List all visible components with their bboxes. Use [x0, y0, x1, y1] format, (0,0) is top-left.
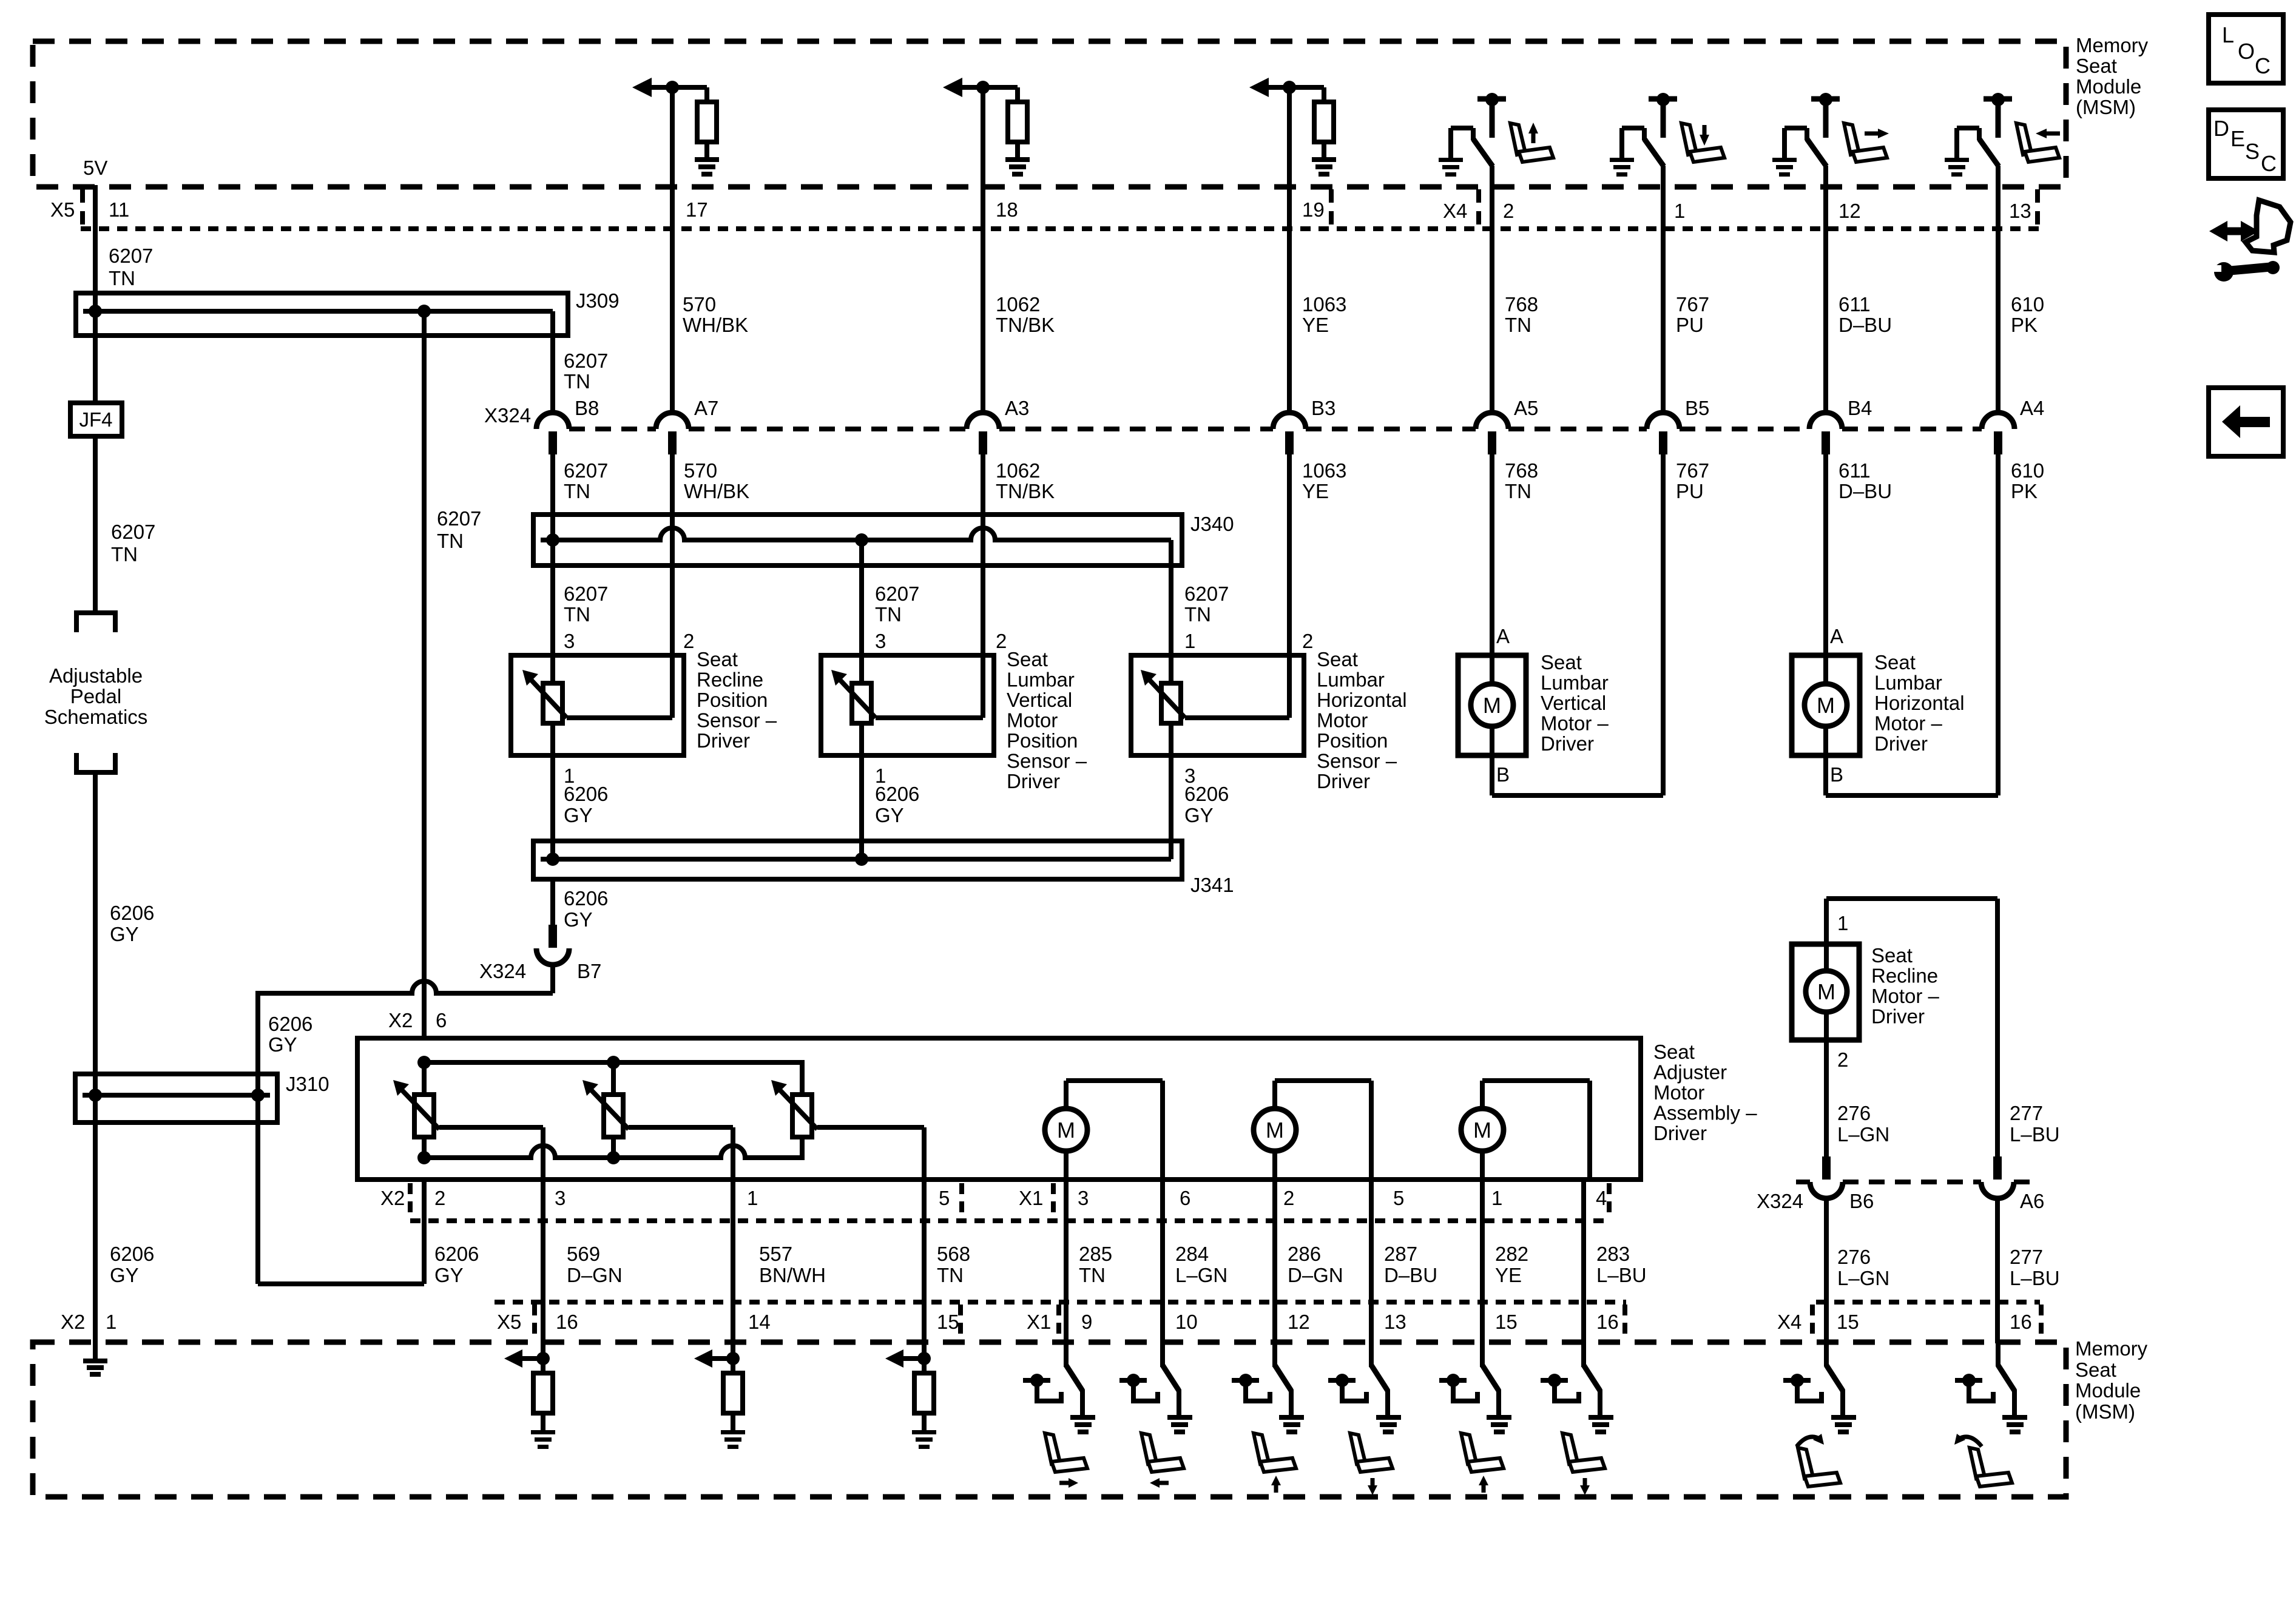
ground for R17	[695, 157, 719, 177]
svg-text:282: 282	[1495, 1243, 1528, 1265]
wire 277 L-BU to X324 A6	[1995, 899, 2000, 1159]
seat icon for switch S1	[1510, 123, 1553, 162]
J341 bus bar	[541, 857, 1171, 862]
svg-text:6206: 6206	[1184, 783, 1229, 805]
svg-text:2: 2	[996, 630, 1007, 652]
seat recline motor box	[1792, 944, 1859, 1040]
label 6207 TN below B8	[564, 459, 608, 502]
wire 1063 YE pin19 to X324 B3	[1287, 87, 1292, 413]
LOC icon box	[2209, 15, 2283, 83]
junction dot bottom bus pot1	[417, 1151, 431, 1164]
svg-text:611: 611	[1838, 293, 1871, 316]
junction dot J341 at B7 wire	[546, 852, 559, 866]
wire 6206 GY J310 down to loop	[255, 1095, 260, 1284]
pin row dotted line X4 bottom	[1816, 1300, 2040, 1305]
label Seat Adjuster Motor Assembly Driver	[1653, 1041, 1757, 1144]
svg-text:TN: TN	[1079, 1264, 1106, 1286]
label 6207 TN upper	[109, 245, 153, 289]
label 6207 TN below JF4	[111, 521, 155, 565]
svg-text:569: 569	[567, 1243, 600, 1265]
label 6206 GY above J310	[110, 902, 154, 945]
switch in MSM at X1-10 seat rearward	[1163, 1342, 1179, 1416]
pin row dotted line X5/X1 bottom	[495, 1300, 1626, 1305]
label 287 D-BU	[1384, 1243, 1437, 1286]
label 768 TN above X324	[1505, 293, 1538, 336]
svg-text:TN/BK: TN/BK	[996, 314, 1055, 336]
wire 6206 GY sensor1 pin1 to J341	[550, 723, 555, 859]
svg-text:J340: J340	[1190, 513, 1234, 535]
seat icon for switch S3	[1844, 123, 1889, 162]
svg-text:Adjustable: Adjustable	[49, 664, 143, 687]
junction dot X5-16	[536, 1352, 550, 1365]
X324 dashed line at B6/A6	[1796, 1180, 2030, 1184]
svg-text:GY: GY	[564, 804, 593, 826]
junction dot J310 right	[251, 1089, 265, 1102]
switch in MSM at X1-9 seat forward	[1066, 1342, 1082, 1416]
J309 bus corner down to B8	[550, 311, 555, 336]
X324 terminal B6	[1810, 1156, 1843, 1198]
svg-text:6207: 6207	[564, 349, 608, 372]
wire 610 PK X4-13 to X324 A4	[1996, 166, 2001, 413]
ground at X1-16 rear down	[1589, 1415, 1613, 1434]
svg-text:Driver: Driver	[1541, 732, 1594, 755]
svg-text:B5: B5	[1685, 397, 1709, 419]
svg-text:B8: B8	[575, 397, 599, 419]
junction dot bottom bus pot2	[607, 1151, 620, 1164]
wire 6207 TN B8 to J340	[550, 454, 555, 540]
diagnostic arrow wrench icon	[2209, 200, 2291, 282]
svg-text:16: 16	[556, 1311, 578, 1333]
label 276 L-GN below	[1837, 1246, 1889, 1289]
wire loop seat lumbar horizontal motor driver	[1826, 755, 1998, 795]
wire 1062 TN/BK pin18 to X324 A3	[981, 87, 985, 413]
wire 276 L-GN B6 to X4-15	[1824, 1198, 1829, 1343]
assembly top bus	[424, 1062, 802, 1096]
label 6206 GY sensor1	[564, 783, 608, 826]
svg-text:D–BU: D–BU	[1384, 1264, 1437, 1286]
junction dot wire R18	[976, 81, 990, 94]
seat recline position sensor driver box	[511, 655, 684, 755]
seat icon at X1-12 front up	[1254, 1433, 1296, 1493]
wire 570 WH/BK pin17 to X324 A7	[670, 87, 675, 413]
wire 570 WH/BK A7 to sensor	[670, 454, 675, 718]
svg-text:TN: TN	[564, 603, 590, 626]
wire 6206 GY loop bottom	[258, 1281, 424, 1286]
svg-text:5V: 5V	[83, 157, 107, 179]
svg-text:5: 5	[939, 1187, 950, 1209]
wire 6207 TN J309 to X324 B8	[550, 333, 555, 413]
X324 terminal bump A7	[656, 413, 689, 454]
svg-text:Sensor –: Sensor –	[1007, 750, 1087, 772]
svg-text:Driver: Driver	[1317, 770, 1370, 792]
arrow into MSM at X5-15	[885, 1349, 924, 1368]
svg-text:Motor –: Motor –	[1541, 712, 1609, 735]
label 6207 TN sensor3	[1184, 582, 1229, 626]
connector tick X4 left	[1476, 189, 1481, 226]
seat recline position sensor driver label text	[697, 648, 777, 752]
tick X1 end bottom	[1622, 1305, 1627, 1338]
svg-text:Driver: Driver	[1007, 770, 1060, 792]
wire B7 down to 6206 GY run	[550, 964, 555, 993]
svg-text:767: 767	[1676, 459, 1709, 482]
seat adjuster motor assembly box	[357, 1038, 1641, 1180]
ground for switch S4	[1945, 158, 1969, 177]
svg-text:M: M	[1483, 693, 1501, 718]
svg-text:287: 287	[1384, 1243, 1417, 1265]
label 6206 GY sensor2	[875, 783, 919, 826]
J340 bus corner down to sensor3	[1169, 540, 1173, 565]
fixed contact hook at X1-16 rear down	[1541, 1374, 1579, 1401]
seat icon at X4-16 recline rearward	[1954, 1434, 2012, 1487]
splice J340 box	[533, 515, 1182, 565]
off-page connector bottom bracket	[76, 753, 115, 772]
seat lumbar vertical motor position sensor driver label text	[1007, 648, 1087, 792]
X324 terminal bump A3	[967, 413, 999, 454]
seat icon at X1-13 front down	[1350, 1433, 1393, 1495]
svg-text:M: M	[1817, 979, 1835, 1004]
svg-text:TN: TN	[564, 480, 590, 502]
X324 terminal B7 cup	[536, 948, 569, 965]
svg-text:TN: TN	[437, 530, 464, 552]
svg-text:1: 1	[1491, 1187, 1502, 1209]
potentiometer P2 vertical position in assembly	[582, 1062, 629, 1158]
svg-text:Position: Position	[697, 689, 768, 711]
switch in MSM at X1-12 front up	[1275, 1342, 1291, 1416]
svg-text:Sensor –: Sensor –	[1317, 750, 1397, 772]
wire 277 L-BU A6 to X4-16	[1995, 1198, 2000, 1343]
seat lumbar horizontal motor position sensor driver box	[1131, 655, 1304, 755]
junction dot J310 left	[89, 1089, 102, 1102]
connector tick X4 right	[2035, 189, 2040, 226]
svg-text:BN/WH: BN/WH	[759, 1264, 826, 1286]
svg-text:3: 3	[1078, 1187, 1089, 1209]
arrow into MSM on wire R18	[943, 78, 1018, 97]
svg-text:Motor: Motor	[1653, 1081, 1704, 1104]
X324 terminal bump B4	[1809, 413, 1842, 454]
off-page connector top bracket	[76, 613, 115, 632]
svg-text:B6: B6	[1849, 1190, 1874, 1212]
junction dot J341 at sensor2 wire	[855, 852, 868, 866]
svg-text:6206: 6206	[875, 783, 919, 805]
svg-text:A7: A7	[694, 397, 718, 419]
seat lumbar vertical motor position sensor driver wiper wire	[876, 715, 983, 720]
wire 285 TN to MSM	[1064, 1180, 1069, 1367]
svg-text:12: 12	[1288, 1311, 1310, 1333]
svg-text:611: 611	[1838, 459, 1871, 482]
label 282 YE	[1495, 1243, 1528, 1286]
seat icon at X1-16 rear down	[1562, 1433, 1605, 1495]
seat recline position sensor driver wiper wire	[567, 715, 672, 720]
svg-text:TN: TN	[564, 370, 590, 393]
svg-text:A: A	[1496, 625, 1510, 647]
ground at X4-16 recline rearward	[2002, 1415, 2027, 1434]
svg-text:L–GN: L–GN	[1175, 1264, 1227, 1286]
label 610 PK below X324	[2011, 459, 2044, 502]
seat recline motor	[1806, 944, 1847, 1040]
svg-text:285: 285	[1079, 1243, 1112, 1265]
svg-text:1063: 1063	[1302, 459, 1346, 482]
svg-text:3: 3	[555, 1187, 566, 1209]
ground for switch S1	[1439, 158, 1463, 177]
switch in MSM at X1-15 rear up	[1482, 1342, 1499, 1416]
label 1063 YE below X324	[1302, 459, 1346, 502]
svg-text:YE: YE	[1302, 480, 1329, 502]
svg-text:6207: 6207	[111, 521, 155, 543]
svg-text:M: M	[1473, 1118, 1491, 1143]
svg-text:GY: GY	[268, 1033, 297, 1056]
svg-text:YE: YE	[1302, 314, 1329, 336]
label 6206 GY X2-2	[434, 1243, 479, 1286]
label 285 TN	[1079, 1243, 1112, 1286]
fixed contact hook at X4-15 recline forward	[1783, 1374, 1822, 1401]
wire 6207 TN J309 to X2-6 long vertical	[422, 311, 427, 1038]
seat lumbar horizontal motor position sensor driver wiper wire	[1185, 715, 1289, 720]
label 557 BN/WH	[759, 1243, 826, 1286]
svg-text:Seat: Seat	[1317, 648, 1358, 670]
svg-text:6207: 6207	[1184, 582, 1229, 605]
svg-text:6: 6	[436, 1009, 447, 1031]
svg-text:O: O	[2238, 39, 2255, 64]
seat lumbar horizontal motor position sensor driver label text	[1317, 648, 1407, 792]
wire 767 PU B5 to lumbar vertical motor loop	[1661, 454, 1666, 795]
svg-text:17: 17	[686, 198, 708, 221]
wire 611 D-BU B4 to lumbar horizontal motor	[1823, 454, 1828, 655]
svg-text:Recline: Recline	[1871, 965, 1938, 987]
arrow into MSM on wire R17	[632, 78, 707, 97]
svg-text:X2: X2	[61, 1311, 85, 1333]
wire 767 PU X4-1 to X324 B5	[1661, 166, 1666, 413]
svg-text:X324: X324	[479, 960, 526, 982]
label text seat lumbar horizontal motor driver	[1874, 651, 1965, 755]
label 286 D-GN	[1288, 1243, 1343, 1286]
svg-text:B: B	[1830, 763, 1843, 786]
svg-text:B4: B4	[1848, 397, 1872, 419]
label 767 PU above X324	[1676, 293, 1709, 336]
svg-text:Lumbar: Lumbar	[1317, 669, 1385, 691]
svg-text:J341: J341	[1190, 874, 1234, 896]
svg-text:GY: GY	[1184, 804, 1214, 826]
resistor at X5-16	[533, 1359, 553, 1431]
X324 terminal bump A5	[1476, 413, 1508, 454]
seat lumbar vertical motor position sensor driver box	[821, 655, 994, 755]
svg-text:Module: Module	[2075, 1379, 2141, 1402]
wire 6206 GY sensor3 pin3 to J341	[1169, 723, 1173, 859]
svg-text:GY: GY	[875, 804, 904, 826]
svg-text:2: 2	[1283, 1187, 1294, 1209]
wire 286 D-GN to MSM	[1272, 1180, 1277, 1367]
label Memory Seat Module (MSM) bottom	[2075, 1337, 2148, 1423]
svg-text:Seat: Seat	[1653, 1041, 1695, 1063]
svg-text:6206: 6206	[434, 1243, 479, 1265]
svg-text:L–GN: L–GN	[1837, 1267, 1889, 1289]
svg-text:TN: TN	[1505, 314, 1531, 336]
svg-text:GY: GY	[110, 923, 139, 945]
label 570 WH/BK above X324	[683, 293, 748, 336]
fixed contact hook at X1-10 seat rearward	[1119, 1374, 1158, 1401]
svg-text:A6: A6	[2020, 1190, 2044, 1212]
svg-text:Horizontal: Horizontal	[1874, 692, 1965, 714]
svg-text:1: 1	[1837, 912, 1848, 934]
ground for R18	[1005, 157, 1030, 177]
motor seat lumbar horizontal motor driver	[1805, 655, 1847, 755]
resistor R18	[1008, 87, 1027, 158]
svg-text:TN: TN	[111, 543, 138, 565]
svg-text:(MSM): (MSM)	[2075, 1400, 2135, 1423]
wire 284 L-GN to MSM	[1160, 1180, 1165, 1367]
svg-text:15: 15	[1837, 1311, 1859, 1333]
back arrow icon box	[2209, 388, 2283, 456]
svg-text:X4: X4	[1443, 200, 1467, 222]
svg-text:Driver: Driver	[697, 729, 750, 752]
svg-text:D–BU: D–BU	[1838, 314, 1892, 336]
svg-text:6207: 6207	[437, 507, 481, 530]
label 569 D-GN	[567, 1243, 623, 1286]
wire 768 TN A5 to lumbar vertical motor	[1490, 454, 1494, 655]
svg-text:Position: Position	[1007, 729, 1078, 752]
label 6206 GY sensor3	[1184, 783, 1229, 826]
switch in MSM at X1-16 rear down	[1584, 1342, 1600, 1416]
svg-text:6207: 6207	[564, 459, 608, 482]
svg-text:A4: A4	[2020, 397, 2044, 419]
svg-text:X5: X5	[497, 1311, 521, 1333]
svg-text:19: 19	[1302, 198, 1325, 221]
svg-text:A3: A3	[1005, 397, 1029, 419]
svg-text:1: 1	[1674, 200, 1685, 222]
svg-text:Motor: Motor	[1317, 709, 1368, 732]
label 6206 GY below J310	[110, 1243, 154, 1286]
seat icon at X1-15 rear up	[1461, 1433, 1504, 1493]
X324 terminal B7 pin stub	[549, 925, 557, 948]
label 610 PK above X324	[2011, 293, 2044, 336]
wire 282 YE to MSM	[1480, 1180, 1485, 1367]
potentiometer in seat lumbar vertical motor position sensor driver	[831, 670, 876, 723]
fuse JF4 box	[70, 403, 122, 436]
label Adjustable Pedal Schematics	[44, 664, 148, 728]
svg-text:A5: A5	[1514, 397, 1538, 419]
connector tick X5 right	[1329, 189, 1334, 226]
label 283 L-BU	[1596, 1243, 1647, 1286]
wire 6207 TN J340 to sensor3 pin1	[1169, 565, 1173, 686]
svg-text:1: 1	[106, 1311, 116, 1333]
junction dot top bus pot1	[417, 1056, 431, 1069]
fixed contact hook at X1-12 front up	[1232, 1374, 1270, 1401]
svg-text:Seat: Seat	[1007, 648, 1048, 670]
svg-text:M: M	[1266, 1118, 1284, 1143]
svg-text:6206: 6206	[268, 1013, 312, 1035]
label 276 L-GN above	[1837, 1102, 1889, 1146]
svg-text:J310: J310	[286, 1073, 329, 1095]
svg-text:13: 13	[2009, 200, 2031, 222]
label 1062 TN/BK below X324	[996, 459, 1055, 502]
svg-text:Seat: Seat	[2076, 55, 2117, 77]
arrow into MSM at X5-16	[504, 1349, 543, 1368]
svg-text:Driver: Driver	[1874, 732, 1928, 755]
X324 terminal bump B3	[1273, 413, 1306, 454]
svg-text:2: 2	[1503, 200, 1514, 222]
ground at X1-10 seat rearward	[1167, 1415, 1192, 1434]
svg-text:6207: 6207	[875, 582, 919, 605]
svg-text:B3: B3	[1311, 397, 1335, 419]
wire 569 D-GN to X5-16	[541, 1180, 545, 1360]
label 767 PU below X324	[1676, 459, 1709, 502]
tick X1 end row A	[1607, 1183, 1612, 1217]
svg-text:2: 2	[434, 1187, 445, 1209]
svg-text:(MSM): (MSM)	[2076, 96, 2136, 118]
svg-text:TN/BK: TN/BK	[996, 480, 1055, 502]
wire 6206 GY bracket to J310	[93, 774, 98, 1360]
fixed contact hook at X1-13 front down	[1328, 1374, 1366, 1401]
potentiometer P1 horizontal position in assembly	[393, 1062, 439, 1158]
svg-text:15: 15	[937, 1311, 959, 1333]
svg-text:D–GN: D–GN	[1288, 1264, 1343, 1286]
svg-text:D: D	[2213, 116, 2229, 141]
junction dot X5-15	[917, 1352, 931, 1365]
switch in MSM at X4-15 recline forward	[1826, 1342, 1843, 1416]
ground at X5-16	[531, 1430, 555, 1449]
svg-text:Memory: Memory	[2076, 34, 2149, 56]
svg-text:16: 16	[2010, 1311, 2032, 1333]
arrow into MSM at X5-14	[694, 1349, 733, 1368]
svg-text:Seat: Seat	[2075, 1359, 2116, 1381]
wire 6207 TN J340 to sensor2 pin3	[859, 540, 864, 686]
tick X1 bottom	[1056, 1305, 1061, 1338]
svg-text:GY: GY	[564, 908, 593, 931]
svg-text:X1: X1	[1027, 1311, 1051, 1333]
switch S1 in MSM (X4 pin)	[1451, 93, 1506, 166]
ground at X4-15 recline forward	[1831, 1415, 1856, 1434]
assembly bottom bus with hops	[424, 1136, 802, 1158]
Memory Seat Module (MSM) bottom dashed box	[33, 1342, 2066, 1497]
svg-text:2: 2	[1302, 630, 1313, 652]
svg-text:D–GN: D–GN	[567, 1264, 623, 1286]
tick X5 end bottom	[958, 1305, 963, 1338]
svg-text:4: 4	[1596, 1187, 1607, 1209]
svg-text:Motor –: Motor –	[1874, 712, 1943, 735]
svg-text:YE: YE	[1495, 1264, 1522, 1286]
wiper wire P2 vertical position to pin	[629, 1127, 733, 1180]
svg-text:12: 12	[1838, 200, 1861, 222]
svg-text:Assembly –: Assembly –	[1653, 1102, 1757, 1124]
svg-text:1: 1	[1184, 630, 1195, 652]
label 277 L-BU below	[2010, 1246, 2060, 1289]
svg-text:11: 11	[109, 198, 129, 221]
svg-text:570: 570	[683, 293, 716, 316]
svg-text:Lumbar: Lumbar	[1007, 669, 1075, 691]
svg-text:Seat: Seat	[1874, 651, 1916, 673]
seat icon for switch S4	[2016, 123, 2060, 162]
wire 6207 TN J340 to sensor1 pin3	[550, 540, 555, 686]
svg-text:JF4: JF4	[79, 408, 112, 431]
resistor R17	[697, 87, 717, 158]
label 6207 TN sensor1	[564, 582, 608, 626]
potentiometer in seat lumbar horizontal motor position sensor driver	[1141, 670, 1185, 723]
svg-text:TN: TN	[1505, 480, 1531, 502]
svg-text:10: 10	[1175, 1311, 1198, 1333]
svg-text:L–BU: L–BU	[2010, 1267, 2060, 1289]
X324 terminal A6	[1981, 1156, 2014, 1198]
label 568 TN	[937, 1243, 970, 1286]
svg-text:M: M	[1057, 1118, 1075, 1143]
svg-text:Adjuster: Adjuster	[1653, 1061, 1727, 1084]
X324 terminal bump B8	[536, 413, 569, 454]
svg-text:PK: PK	[2011, 480, 2038, 502]
svg-text:768: 768	[1505, 459, 1538, 482]
svg-text:Recline: Recline	[697, 669, 763, 691]
svg-text:1063: 1063	[1302, 293, 1346, 316]
pin row dotted line X2/X1 below assembly	[410, 1218, 1609, 1223]
motor box seat lumbar horizontal motor driver	[1792, 655, 1860, 755]
svg-text:283: 283	[1596, 1243, 1630, 1265]
